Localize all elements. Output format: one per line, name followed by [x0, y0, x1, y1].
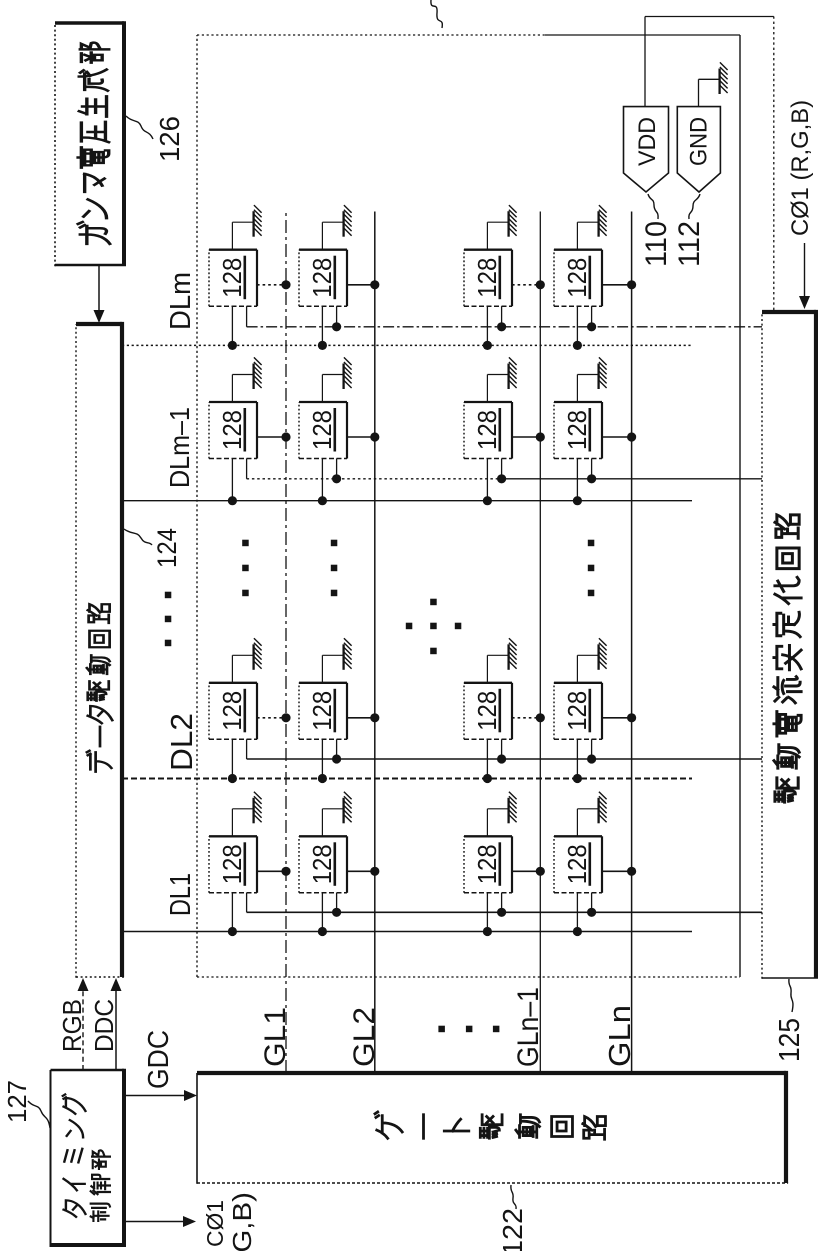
GDC signal arrow	[124, 1030, 197, 1101]
gate line GLn	[631, 212, 633, 1074]
pixel circuit 128 (row 1, col 4)	[209, 250, 257, 307]
gate driver box 122	[197, 1071, 788, 1184]
C phi 1 (G,B) output arrow	[124, 1192, 257, 1251]
arrow: gamma box to data driver	[94, 265, 105, 323]
label 112 with leader squiggle	[673, 194, 706, 267]
wire: pixel r4c3 to current rail	[591, 459, 593, 479]
svg-text:CØ1 (R,G,B): CØ1 (R,G,B)	[787, 100, 814, 236]
svg-text:127: 127	[2, 1080, 32, 1123]
label 110 with leader squiggle	[640, 194, 673, 267]
pixel circuit 128 (row 3, col 1)	[464, 836, 512, 893]
wire: pixel r2c1 to current rail	[336, 893, 338, 913]
svg-text:128: 128	[474, 258, 502, 298]
RGB signal arrow	[57, 978, 89, 1070]
ellipsis: center of array	[406, 599, 462, 655]
current rail (column 1) to stabilizer	[247, 911, 762, 913]
svg-text:CØ1: CØ1	[202, 1200, 228, 1247]
pixel circuit 128 (row 1, col 3)	[209, 402, 257, 459]
pixel circuit 128 (row 1, col 1)	[209, 836, 257, 893]
label 126 with leader squiggle	[126, 116, 185, 162]
svg-text:128: 128	[309, 258, 337, 298]
VDD supply flag 110	[624, 107, 669, 192]
svg-text:128: 128	[219, 844, 247, 884]
ellipsis: more gate lines	[438, 1026, 499, 1033]
ellipsis: more pixels row 1	[242, 540, 249, 597]
current rail (column 2) to stabilizer	[247, 758, 762, 760]
ground of pixel r3c4	[487, 205, 516, 250]
ground of pixel r3c1	[487, 792, 516, 837]
svg-text:128: 128	[564, 691, 592, 731]
pixel circuit 128 (row 4, col 2)	[554, 683, 602, 740]
pixel circuit 128 (row 4, col 4)	[554, 250, 602, 307]
svg-text:GLn–1: GLn–1	[512, 987, 545, 1067]
svg-text:DL2: DL2	[164, 713, 199, 771]
svg-text:125: 125	[774, 1018, 806, 1062]
ground of pixel r2c1	[322, 792, 351, 837]
wire: pixel r1c1 to data line	[231, 893, 233, 932]
label 125 with leader squiggle	[774, 979, 806, 1062]
drive current stabilization box 125	[762, 310, 818, 979]
svg-text:128: 128	[564, 258, 592, 298]
svg-text:GDC: GDC	[143, 1030, 175, 1089]
wire: pixel r2c1 to gate line	[347, 870, 375, 872]
wire: pixel r3c4 to current rail	[501, 306, 503, 327]
wire: pixel r1c4 to data line	[231, 306, 233, 345]
display panel dashed outline	[197, 35, 740, 977]
svg-text:VDD: VDD	[634, 117, 661, 166]
ground of pixel r2c4	[322, 205, 351, 250]
wire: pixel r3c4 to gate line	[512, 284, 540, 286]
gate line GL1	[285, 212, 287, 1074]
wire: pixel r4c3 to data line	[576, 459, 578, 501]
wire: pixel r1c4 to gate line	[257, 284, 286, 286]
svg-text:GND: GND	[686, 117, 713, 166]
current rail (column 4) to stabilizer	[247, 326, 762, 328]
ground of pixel r2c2	[322, 638, 351, 683]
svg-text:(R,G,B): (R,G,B)	[227, 1192, 257, 1251]
svg-text:110: 110	[640, 221, 673, 267]
gate line GLn-1	[539, 212, 541, 1074]
wire: pixel r2c1 to data line	[321, 893, 323, 932]
data line DLm-1	[122, 500, 692, 502]
data line DL1	[122, 931, 692, 933]
svg-text:128: 128	[309, 410, 337, 450]
wire: pixel r2c2 to gate line	[347, 717, 375, 719]
wire: pixel r2c3 to gate line	[347, 436, 375, 438]
wire: pixel r2c4 to current rail	[336, 306, 338, 327]
svg-text:128: 128	[474, 844, 502, 884]
gate line GL2	[374, 212, 376, 1074]
wire: pixel r1c2 to data line	[231, 739, 233, 778]
svg-text:128: 128	[474, 691, 502, 731]
svg-text:DLm: DLm	[165, 272, 197, 330]
svg-text:128: 128	[474, 410, 502, 450]
svg-text:124: 124	[152, 528, 182, 568]
wire: pixel r4c3 to gate line	[602, 436, 632, 438]
wire: pixel r1c2 to current rail	[246, 739, 248, 759]
C phi 1 (R,G,B) input arrow to stabilizer	[787, 100, 814, 309]
svg-text:RGB: RGB	[57, 999, 87, 1052]
data line DL2	[122, 778, 692, 780]
current rail (column 3) to stabilizer	[247, 478, 500, 480]
svg-text:GL1: GL1	[259, 1007, 292, 1067]
svg-text:DL1: DL1	[165, 873, 197, 916]
pixel circuit 128 (row 2, col 4)	[299, 250, 347, 307]
GND flag 112	[677, 107, 720, 192]
ground of pixel r1c3	[232, 357, 261, 402]
VDD wire to stabilizer	[645, 17, 774, 311]
pixel circuit 128 (row 2, col 2)	[299, 683, 347, 740]
ground of pixel r4c4	[577, 205, 606, 250]
wire: pixel r4c2 to current rail	[591, 739, 593, 759]
wire: pixel r3c2 to data line	[486, 739, 488, 778]
svg-text:128: 128	[219, 258, 247, 298]
svg-text:128: 128	[564, 844, 592, 884]
pixel circuit 128 (row 3, col 2)	[464, 683, 512, 740]
ground of pixel r3c3	[487, 357, 516, 402]
wire: pixel r4c4 to gate line	[602, 284, 632, 286]
pixel circuit 128 (row 2, col 1)	[299, 836, 347, 893]
wire: pixel r3c1 to gate line	[512, 870, 540, 872]
ellipsis: more pixels row 4	[588, 540, 595, 597]
svg-text:DLm–1: DLm–1	[164, 407, 195, 488]
ellipsis: more data lines	[165, 592, 172, 647]
svg-text:GL2: GL2	[348, 1007, 381, 1067]
wire: pixel r3c3 to current rail	[501, 459, 503, 479]
svg-text:128: 128	[564, 410, 592, 450]
DDC signal arrow	[89, 978, 122, 1070]
label 122 with leader squiggle	[497, 1185, 528, 1251]
svg-text:128: 128	[309, 844, 337, 884]
wire: pixel r2c4 to data line	[321, 306, 323, 345]
label 127 with leader squiggle	[2, 1080, 50, 1128]
wire: pixel r3c2 to current rail	[501, 739, 503, 759]
gamma voltage generator box 126	[55, 21, 126, 266]
svg-text:126: 126	[154, 116, 185, 162]
timing controller box 127	[51, 1069, 127, 1247]
svg-text:DDC: DDC	[89, 999, 119, 1052]
wire: pixel r3c2 to gate line	[512, 717, 540, 719]
svg-text:128: 128	[219, 410, 247, 450]
GND wire and earth	[699, 62, 728, 106]
wire: pixel r2c2 to current rail	[336, 739, 338, 759]
wire: pixel r3c4 to data line	[486, 306, 488, 345]
wire: pixel r4c2 to gate line	[602, 717, 632, 719]
svg-text:GLn: GLn	[602, 1005, 637, 1067]
ground of pixel r1c4	[232, 205, 261, 250]
ground of pixel r4c3	[577, 357, 606, 402]
svg-text:128: 128	[219, 691, 247, 731]
wire: pixel r1c3 to gate line	[257, 436, 286, 438]
svg-text:112: 112	[673, 221, 706, 267]
wire: pixel r2c4 to gate line	[347, 284, 375, 286]
wire: pixel r3c3 to data line	[486, 459, 488, 501]
data driver box 124	[76, 322, 124, 978]
pixel circuit 128 (row 4, col 3)	[554, 402, 602, 459]
wire: pixel r1c2 to gate line	[257, 717, 286, 719]
ground of pixel r2c3	[322, 357, 351, 402]
svg-text:122: 122	[497, 1208, 528, 1251]
wire: pixel r1c4 to current rail	[246, 306, 248, 327]
data line DLm	[122, 344, 692, 346]
wire: pixel r4c1 to gate line	[602, 870, 632, 872]
wire: pixel r2c3 to current rail	[336, 459, 338, 479]
wire: pixel r4c2 to data line	[576, 739, 578, 778]
svg-text:128: 128	[309, 691, 337, 731]
ground of pixel r3c2	[487, 638, 516, 683]
ground of pixel r4c1	[577, 792, 606, 837]
pixel circuit 128 (row 4, col 1)	[554, 836, 602, 893]
wire: pixel r4c1 to current rail	[591, 893, 593, 913]
wire: pixel r1c3 to data line	[231, 459, 233, 501]
ground of pixel r1c1	[232, 792, 261, 837]
wire: pixel r1c1 to gate line	[257, 870, 286, 872]
ellipsis: more pixels row 2	[331, 540, 338, 597]
wire: pixel r4c1 to data line	[576, 893, 578, 932]
ground of pixel r1c2	[232, 638, 261, 683]
label 124 with leader squiggle	[124, 528, 182, 568]
wire: pixel r4c4 to data line	[576, 306, 578, 345]
wire: pixel r2c3 to data line	[321, 459, 323, 501]
wire: pixel r3c1 to current rail	[501, 893, 503, 913]
wire: pixel r1c3 to current rail	[246, 459, 248, 479]
wire: pixel r3c1 to data line	[486, 893, 488, 932]
pixel circuit 128 (row 3, col 4)	[464, 250, 512, 307]
ground of pixel r4c2	[577, 638, 606, 683]
wire: pixel r2c2 to data line	[321, 739, 323, 778]
panel reference squiggle (number off-page)	[431, 0, 442, 28]
wire: pixel r1c1 to current rail	[246, 893, 248, 913]
wire: pixel r3c3 to gate line	[512, 436, 540, 438]
wire: pixel r4c4 to current rail	[591, 306, 593, 327]
pixel circuit 128 (row 3, col 3)	[464, 402, 512, 459]
pixel circuit 128 (row 2, col 3)	[299, 402, 347, 459]
pixel circuit 128 (row 1, col 2)	[209, 683, 257, 740]
